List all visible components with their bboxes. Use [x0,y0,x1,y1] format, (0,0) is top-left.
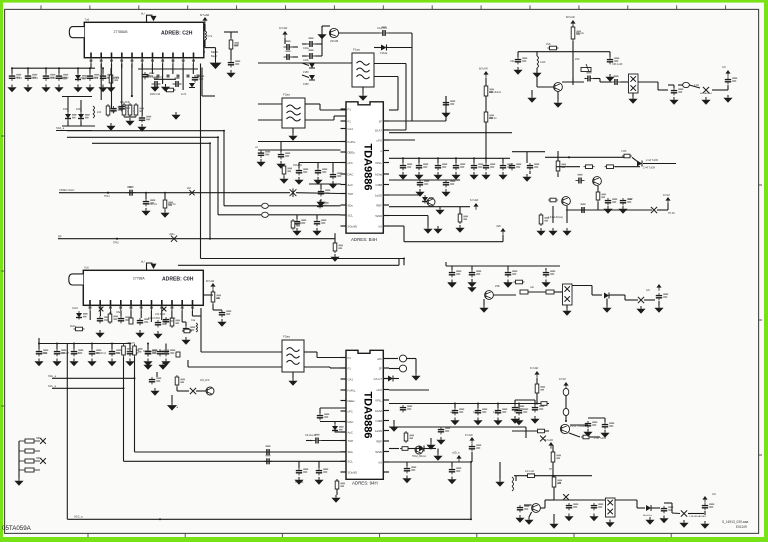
wire [402,158,404,163]
capacitor C14 [278,152,290,159]
wire [176,387,178,391]
wire [321,44,323,56]
svg-text:R40 1k: R40 1k [168,203,176,206]
frame tick [578,5,580,9]
wire [258,149,341,151]
junction [470,461,472,463]
resistor RA1 [404,431,414,443]
resistor R87 [182,329,192,333]
svg-text:TP: TP [549,468,552,471]
coil LC1 [512,477,514,491]
U3 pin 8 [160,300,163,311]
capacitor C15 [296,168,308,175]
svg-text:3SV: 3SV [628,198,633,201]
capacitor C45 [294,219,306,226]
diode bridge DC [606,498,616,517]
svg-text:bU: bU [141,259,145,263]
wire [304,351,317,353]
ground [435,207,444,215]
capacitor CC8 [661,506,673,513]
U1 pin 6 [141,53,144,64]
svg-text:uPu: uPu [377,357,382,361]
U4 pin right 18 [383,420,389,422]
ground [467,285,476,293]
wire [67,97,69,113]
resistor R77 [539,213,549,226]
svg-text:u4u: u4u [530,286,535,289]
capacitor C20 [416,163,428,170]
electrolytic C97 [399,355,406,362]
wire [102,68,104,73]
resistor R75 [548,198,558,202]
ground [158,362,167,370]
diode D91 [332,424,344,433]
ground [316,199,325,207]
capacitor C30 [71,349,83,356]
wire [512,151,545,153]
frame tick [382,5,384,9]
wire [625,299,638,301]
diode D86 [190,388,196,394]
svg-text:CA.UT: CA.UT [374,377,383,381]
wire [302,55,307,57]
ground [141,208,150,216]
capacitor C22 [453,163,465,170]
svg-text:7u6: 7u6 [85,18,90,22]
wire [182,321,186,323]
capacitor C45 [543,270,555,277]
svg-text:SDu: SDu [348,203,354,207]
diode bridge D61/D62 [629,74,639,93]
ground [469,172,478,180]
capacitor C16 [315,168,327,175]
frame tick [431,5,433,9]
wire [408,448,419,450]
ground [495,479,504,487]
resistor R4 [134,103,144,117]
jumper J4 [19,468,40,472]
wire [545,499,554,501]
wire [637,507,645,509]
svg-text:2.04A/uF(isse): 2.04A/uF(isse) [548,216,563,219]
wire [389,403,549,405]
wire pin drop [90,64,92,69]
svg-text:SCL_a: SCL_a [48,384,56,388]
svg-text:TaSD: TaSD [375,214,382,218]
ground [107,359,116,367]
frame tick [529,5,531,9]
capacitor C2 [25,74,37,81]
wire [470,462,472,519]
svg-text:N84u: N84u [36,437,42,440]
U2 pin left 1 [341,108,347,110]
ground [564,514,573,522]
junction [164,192,166,194]
ground [411,373,420,381]
resistor R97 [535,382,545,395]
svg-text:S_16913_039-aaa: S_16913_039-aaa [722,520,748,524]
wire [298,163,300,169]
ground [331,495,340,503]
wire [62,125,95,127]
resistor RC4 [552,475,562,489]
ground [510,416,519,424]
wire [615,499,637,501]
resistor RC5 [526,474,537,478]
wire [99,311,101,317]
wire SCL_B [52,387,124,389]
svg-text:3SA4B4: 3SA4B4 [293,164,302,167]
svg-text:TP20: TP20 [60,77,67,81]
wire [224,205,261,207]
U2 pin right 14 [383,139,389,141]
junction [27,67,29,69]
wire [389,129,406,131]
IC U2 TDA9886 #1 [346,102,383,233]
svg-text:VIDEO AGC: VIDEO AGC [59,188,74,192]
junction [38,343,40,345]
wire [171,395,173,402]
wire [518,404,520,409]
diode D21 [189,83,195,88]
svg-text:RF: RF [58,235,62,239]
svg-text:NEGALBAG: NEGALBAG [700,92,712,95]
wire [18,441,20,478]
capacitor C76 [579,203,588,213]
junction [402,157,404,159]
ground [150,388,159,396]
wire [192,64,194,75]
wire [334,422,336,425]
wire [296,192,341,195]
svg-text:7145: 7145 [621,150,627,153]
wire [712,89,728,91]
ground [181,337,190,345]
svg-text:8/7uAR: 8/7uAR [566,15,575,19]
ground [618,206,627,214]
svg-text:1aSD: 1aSD [375,193,382,197]
wire [305,103,320,105]
border frame green top [0,0,768,3]
power arrow [570,20,575,27]
svg-text:C20a: C20a [303,47,309,50]
svg-text:181_R/S: 181_R/S [200,379,210,382]
ground [636,306,645,314]
wire pin drop [121,64,123,69]
wire [389,368,399,370]
svg-text:C6b 1u0F: C6b 1u0F [612,63,623,66]
U1 pin 4 [120,53,123,64]
svg-text:4/7uM: 4/7uM [663,194,670,197]
junction [223,130,225,132]
ground [450,418,459,426]
coil L81 [196,323,198,332]
junction [45,67,47,69]
wire [201,351,282,353]
capacitor C18 [143,199,155,206]
capacitor C74 [605,198,617,205]
wire [525,427,527,438]
wire [302,63,309,66]
ground [605,520,614,528]
capacitor C17 [330,172,342,179]
wire [156,372,158,377]
wire [258,141,341,143]
U2 pin right 15 [383,150,389,152]
svg-text:DAC: DAC [348,172,354,176]
wire [562,81,584,83]
wire [80,100,82,112]
svg-text:C4a: C4a [191,320,196,322]
power arrow [473,203,478,210]
junction [217,136,219,138]
wire [643,163,676,165]
wire [689,85,700,88]
capacitor C34 [145,349,157,356]
capacitor CC3 [585,421,597,428]
U4 pin right 17 [383,410,389,412]
capacitor C81 [97,316,109,323]
wire [597,202,599,210]
wire pin drop [131,64,133,69]
wire SCL to U4 [124,460,347,462]
wire [424,448,436,450]
frame tick [1,405,4,407]
U4 pin right 20 [383,440,389,442]
svg-text:C84a: C84a [42,353,48,355]
junction [418,157,420,159]
ground [143,362,152,370]
ground [125,118,134,126]
svg-text:1SS4a: 1SS4a [380,52,388,55]
wire [100,64,102,101]
U4 pin right 14 [383,378,389,380]
svg-text:GN: GN [646,289,650,292]
U2 pin left 8 [341,184,347,186]
capacitor C64 [671,88,683,95]
U4 pin left 9 [341,440,347,442]
svg-text:SOuND: SOuND [348,470,358,474]
wire [483,299,485,305]
U4 pin right 16 [383,399,389,401]
wire [258,103,282,105]
wire [553,487,555,500]
wire [320,421,346,423]
wire [56,344,58,350]
wire [374,47,381,49]
wire [317,357,346,359]
svg-text:ADREB: C2H: ADREB: C2H [161,31,193,37]
svg-text:8.7uAR: 8.7uAR [530,367,539,370]
wire [657,209,668,211]
ground [645,517,654,525]
svg-text:C1.04: C1.04 [31,76,39,80]
wire [544,500,546,508]
U1 pin 5 [131,53,134,64]
svg-text:C2/R u47: C2/R u47 [60,353,70,355]
svg-text:SCL: SCL [348,460,354,464]
wire [124,116,136,118]
capacitor CA2 [438,427,450,434]
wire [320,184,322,189]
U4 pin left 4 [341,389,347,391]
wire [150,311,152,323]
frame tick [725,5,727,9]
svg-text:R4a R4b: R4a R4b [120,101,130,104]
wire [389,32,413,34]
svg-text:4/7uM: 4/7uM [559,378,566,381]
svg-text:OJ88: OJ88 [375,419,382,423]
ground [447,477,456,485]
wire [321,26,323,44]
wire [322,25,330,27]
U3 pin 1 [89,300,92,311]
wire [334,233,336,243]
wire [604,418,606,422]
wire [192,315,201,317]
power arrow [202,17,207,24]
resistor R52 [458,212,468,224]
wire [411,33,413,121]
wire [592,294,602,296]
wire [403,226,405,242]
svg-text:uSD: uSD [496,225,501,228]
junction [568,156,570,158]
wire into F1 [258,62,352,64]
ground [548,228,557,236]
resistor R05 [229,38,239,51]
wire [405,64,407,131]
wire [389,426,526,428]
svg-text:1aSD: 1aSD [375,429,382,433]
svg-text:8/7uAR: 8/7uAR [479,67,488,71]
svg-text:N84u: N84u [36,457,42,460]
wire [473,158,475,163]
ground [69,359,78,367]
diode D101 [309,63,315,68]
wire [403,259,405,266]
no-connect mark [99,307,104,312]
U2 pin right 21 [383,215,389,217]
wire [393,378,399,380]
svg-text:1u0F: 1u0F [540,61,546,64]
wire [566,209,598,211]
svg-text:18.A7: 18.A7 [375,128,383,132]
capacitor C51 [443,100,455,107]
wire [217,137,219,215]
svg-text:C6a: C6a [510,60,515,63]
wire [187,360,189,367]
wire [727,85,729,90]
junction [111,343,113,345]
wire [129,344,131,350]
wire [131,64,133,97]
component pad [129,318,133,324]
svg-text:2SC: 2SC [575,58,580,61]
wire [269,205,341,207]
frame tick [759,454,762,456]
svg-text:2.44 TuON: 2.44 TuON [646,159,658,162]
capacitor C80 [219,310,231,317]
capacitor C22 [192,75,204,82]
frame tick [670,533,672,537]
ground [467,280,476,288]
ground [603,206,612,214]
frame tick [138,5,140,9]
U4 pin left 5 [341,400,347,402]
wire [485,122,487,158]
wire [336,479,338,481]
wire [172,64,174,75]
wire [110,68,112,73]
svg-text:C94 .u4: C94 .u4 [295,481,304,484]
resistor R84 [122,344,132,357]
wire [269,214,341,216]
wire [151,64,153,75]
ground [414,172,423,180]
ground [455,225,464,233]
capacitor C87b [145,349,157,356]
junction [131,95,133,97]
diode D102 [309,75,315,80]
resistor R83 [170,316,180,328]
capacitor C84 [155,320,167,327]
wire [145,193,147,199]
wire [196,390,206,392]
svg-text:2SB: 2SB [495,285,500,288]
capacitor C33 [127,349,139,356]
wire [330,367,346,369]
svg-text:TDA9886: TDA9886 [362,143,374,190]
capacitor C35 [163,349,175,356]
wire [397,77,399,111]
wire long return AGC [67,518,471,520]
svg-text:2F: 2F [379,119,383,123]
wire [445,96,447,100]
ground [54,85,63,93]
component RB2 [520,290,528,294]
ground [330,254,339,262]
svg-text:C1u04 4u7F: C1u04 4u7F [150,76,164,79]
U2 pin right 16 [383,162,389,164]
junction [102,67,104,69]
resistor R2 [122,103,132,117]
wire [502,235,504,242]
junction [209,142,211,144]
U2 pin left 4 [341,141,347,143]
capacitor C12 [228,60,240,67]
U1 pin 11 [192,53,195,64]
junction [473,157,475,159]
svg-text:4/7uSD: 4/7uSD [465,435,473,437]
junction [116,238,118,240]
svg-text:TOP: TOP [348,439,354,443]
wire [171,311,173,319]
svg-text:uSD_a: uSD_a [452,452,460,455]
wire [672,512,680,515]
wire [332,163,334,173]
capacitor C31 [89,349,101,356]
junction [129,343,131,345]
wire [204,24,206,31]
border frame green bottom [0,537,768,542]
ground [493,418,502,426]
capacitor C6 [100,74,112,81]
wire [404,241,503,243]
wire [383,378,388,380]
wire SDA_B [52,377,135,379]
capacitor C105 [284,50,293,60]
